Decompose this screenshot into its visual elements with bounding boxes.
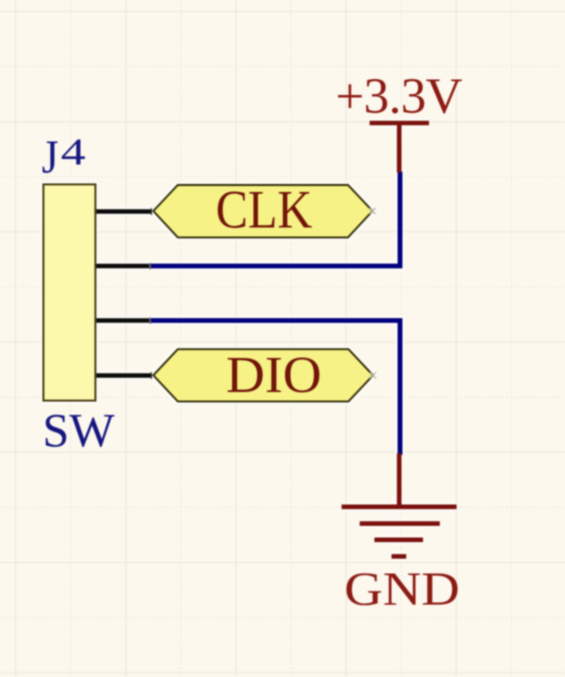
- power net label +3.3V: [336, 69, 463, 125]
- port CLK: [153, 180, 375, 240]
- svg-text:GND: GND: [344, 562, 459, 615]
- wire net CLK: pin2 to +3.3V: [151, 172, 400, 267]
- pin 4: [96, 372, 151, 379]
- comment SW: [43, 404, 116, 457]
- svg-text:4: 4: [61, 131, 86, 173]
- svg-text:DIO: DIO: [226, 347, 322, 404]
- svg-text:SW: SW: [43, 404, 116, 457]
- pin 3: [96, 318, 150, 324]
- pin 2: [96, 263, 150, 269]
- connector J4 body: [43, 184, 95, 400]
- designator J4: [42, 131, 86, 183]
- power port +3.3V bar: [370, 123, 429, 173]
- wire net DIO: pin3 to GND: [151, 321, 400, 456]
- svg-text:J: J: [42, 131, 59, 183]
- ground symbol GND: [342, 454, 457, 557]
- pin 1: [96, 208, 151, 215]
- halo (decorative glow matching target sharpening): [43, 123, 456, 556]
- svg-text:CLK: CLK: [216, 180, 312, 240]
- svg-text:+3.3V: +3.3V: [336, 69, 463, 125]
- ground net label GND: [344, 562, 459, 615]
- port DIO: [153, 347, 376, 404]
